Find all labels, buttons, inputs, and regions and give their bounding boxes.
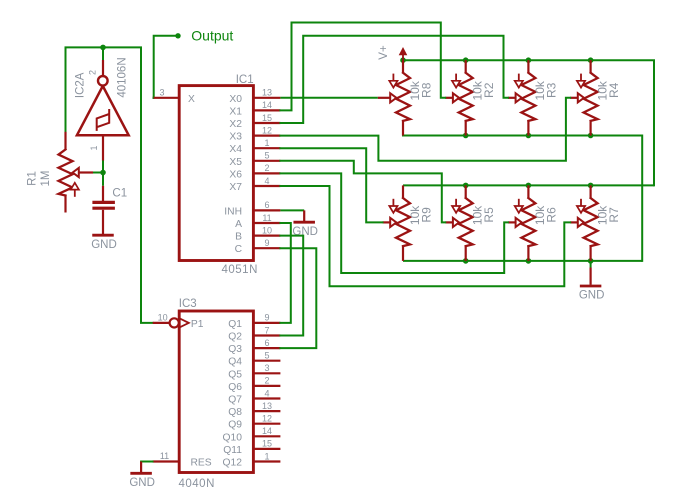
pin number 11: [262, 213, 271, 223]
pin number 2: [264, 163, 269, 173]
svg-text:Q4: Q4: [228, 357, 242, 368]
pin number 10: [262, 225, 272, 235]
svg-text:12: 12: [262, 414, 272, 424]
junction V+ rail x=528.4: [526, 57, 532, 63]
junction V+ rail x=403: [400, 57, 406, 63]
pin name Q5: [228, 369, 242, 380]
pin name Q1: [228, 319, 242, 330]
label 10k of R7: [595, 205, 609, 225]
ground at RES: [129, 462, 155, 489]
pin number 6: [264, 338, 269, 348]
pin number 9: [264, 313, 269, 323]
svg-text:P1: P1: [191, 319, 204, 330]
pin name Q8: [228, 407, 242, 418]
wiper lead of R3: [508, 97, 516, 99]
pin number 11: [160, 451, 169, 461]
pin number 15: [262, 113, 272, 123]
pin name X7: [229, 182, 242, 193]
junction top row bottom rail x=590.6: [588, 133, 594, 139]
svg-text:14: 14: [262, 426, 272, 436]
svg-text:IC1: IC1: [236, 74, 254, 86]
svg-text:Q6: Q6: [228, 382, 242, 393]
svg-text:13: 13: [262, 401, 272, 411]
resistor R1 trimmer 1M: [59, 132, 94, 213]
pin 10 stub of IC3 (P1 clock): [153, 318, 189, 327]
pin name X6: [229, 169, 242, 180]
pin 11 stub of IC3 (RES): [153, 460, 180, 462]
wiper lead of R5: [445, 221, 453, 223]
resistor R3 trimmer 10k: [515, 60, 536, 135]
svg-text:3: 3: [159, 88, 164, 98]
svg-text:11: 11: [160, 451, 169, 461]
junction V+ rail x=590.6: [588, 57, 594, 63]
pin 7 stub of IC3 (Q2): [253, 334, 280, 336]
svg-text:10: 10: [262, 225, 272, 235]
pin 13 stub of IC1 (X0): [253, 97, 280, 99]
pin name Q12: [223, 458, 243, 469]
pin number 3: [264, 363, 269, 373]
pin 2 stub of IC1 (X6): [253, 172, 280, 174]
pin number 5: [264, 351, 269, 361]
pin name X1: [229, 106, 242, 117]
pin 12 stub of IC3 (Q9): [253, 423, 280, 425]
svg-text:2: 2: [88, 70, 98, 75]
svg-text:13: 13: [262, 88, 272, 98]
label 10k of R5: [471, 205, 485, 225]
svg-text:X6: X6: [229, 169, 242, 180]
wire net C (IC1 pin 9 to IC3 Q3): [280, 248, 316, 348]
resistor R2 trimmer 10k: [452, 60, 473, 135]
svg-text:Q1: Q1: [228, 319, 242, 330]
pin number 12: [262, 414, 272, 424]
pin 4 stub of IC3 (Q7): [253, 397, 280, 399]
label Output: [191, 27, 233, 43]
resistor R5 trimmer 10k: [452, 185, 473, 261]
svg-text:Q3: Q3: [228, 344, 242, 355]
wire IC2A output to junction: [102, 47, 104, 60]
svg-text:15: 15: [262, 113, 272, 123]
wire R1 wiper to node: [93, 172, 103, 174]
wire Output to pin 3: [153, 97, 154, 99]
wire bottom row bottom rail: [403, 260, 642, 262]
svg-text:1: 1: [264, 451, 269, 461]
inverter IC2A pin 1 stub: [102, 135, 104, 160]
svg-text:R1: R1: [26, 171, 38, 186]
label 4040N: [179, 478, 215, 490]
svg-text:A: A: [235, 219, 242, 230]
svg-text:C: C: [235, 244, 243, 255]
IC U1 IC1 4051N analog multiplexer body: [179, 86, 253, 261]
label R1: [26, 171, 38, 186]
svg-text:Q11: Q11: [223, 445, 242, 456]
capacitor C1: [92, 186, 115, 234]
pin 6 stub of IC3 (Q3): [253, 347, 280, 349]
pin 5 stub of IC3 (Q4): [253, 360, 280, 362]
svg-text:1M: 1M: [40, 171, 52, 187]
pin number 1 of IC2A: [89, 145, 99, 150]
pin number 4: [264, 388, 269, 398]
label 10k of R2: [471, 80, 485, 100]
junction bottom row top rail x=465.7: [463, 183, 469, 189]
pin name Q11: [223, 445, 242, 456]
pin name Q3: [228, 344, 242, 355]
svg-text:IC2A: IC2A: [74, 72, 86, 98]
pin number 14: [262, 100, 272, 110]
pin name X2: [229, 119, 242, 130]
svg-text:X4: X4: [229, 144, 242, 155]
label 4051N: [222, 264, 258, 276]
wire net B (IC1 pin 10 to IC3 Q2): [280, 236, 303, 336]
pin number 4: [264, 176, 269, 186]
pin name Q4: [228, 357, 242, 368]
pin 15 stub of IC3 (Q11): [253, 448, 280, 450]
svg-text:R6: R6: [545, 207, 559, 223]
resistor R9 trimmer 10k: [389, 185, 410, 261]
label IC3: [179, 298, 197, 310]
pin 3 stub of IC1 (X common): [153, 97, 180, 99]
IC U3 IC3 4040N counter body: [179, 311, 253, 473]
svg-text:R2: R2: [482, 82, 496, 98]
power V+ symbol: [399, 47, 408, 60]
pin 4 stub of IC1 (X7): [253, 185, 280, 187]
pin name INH: [224, 206, 242, 217]
resistor R8 trimmer 10k: [389, 60, 410, 135]
svg-text:R7: R7: [607, 207, 621, 223]
svg-text:4051N: 4051N: [222, 264, 258, 276]
svg-text:2: 2: [264, 163, 269, 173]
svg-text:X7: X7: [229, 182, 242, 193]
wire Output net: [154, 36, 178, 98]
resistor R6 trimmer 10k: [515, 185, 536, 261]
svg-text:40106N: 40106N: [117, 57, 129, 97]
label 10k of R9: [408, 205, 422, 225]
pin name X5: [229, 157, 242, 168]
label R4: [607, 82, 621, 98]
ground at INH: [292, 210, 318, 237]
pin name Q6: [228, 382, 242, 393]
pin 14 stub of IC3 (Q10): [253, 435, 280, 437]
svg-text:10: 10: [158, 312, 168, 322]
pin number 13: [262, 88, 272, 98]
svg-text:R8: R8: [419, 82, 433, 98]
svg-text:6: 6: [264, 200, 269, 210]
junction bottom row bottom rail x=528.4: [526, 258, 532, 264]
svg-text:5: 5: [264, 151, 269, 161]
wire bottom row top rail: [403, 184, 654, 186]
label 10k of R6: [533, 205, 547, 225]
svg-text:R5: R5: [482, 207, 496, 223]
svg-text:7: 7: [264, 325, 269, 335]
junction R1 wiper / C1 / IC2A input: [100, 170, 106, 176]
wire net X5 to R5 wiper: [280, 161, 445, 223]
svg-text:Q9: Q9: [228, 420, 242, 431]
svg-text:V+: V+: [378, 45, 390, 60]
wiper lead of R9: [383, 221, 391, 223]
wire V+ rail (top row top): [403, 60, 654, 185]
svg-text:Output: Output: [191, 27, 233, 43]
label 10k of R3: [533, 80, 547, 100]
pin 14 stub of IC1 (X1): [253, 109, 280, 111]
svg-text:12: 12: [262, 125, 272, 135]
wiper lead of R4: [570, 97, 578, 99]
label X pin name: [188, 94, 195, 105]
svg-text:B: B: [235, 232, 242, 243]
wire top row bottom rail: [403, 136, 642, 261]
label R2: [482, 82, 496, 98]
wiper lead of R2: [445, 97, 453, 99]
wiper lead of R6: [508, 221, 516, 223]
label R3: [545, 82, 559, 98]
svg-text:15: 15: [262, 439, 272, 449]
svg-text:4040N: 4040N: [179, 478, 215, 490]
pin name Q2: [228, 332, 242, 343]
svg-text:Q8: Q8: [228, 407, 242, 418]
svg-text:R4: R4: [607, 82, 621, 98]
pin number 2 of IC2A: [88, 70, 98, 75]
svg-text:X3: X3: [229, 132, 242, 143]
pin 11 stub of IC1 (A): [253, 222, 280, 224]
svg-text:14: 14: [262, 100, 272, 110]
pin 9 stub of IC1 (C): [253, 247, 280, 249]
label 10k of R8: [408, 80, 422, 100]
wire INH to ground: [280, 209, 304, 211]
wire net X1 to R2 wiper: [280, 23, 445, 111]
pin name X0: [229, 94, 242, 105]
junction bottom row top rail x=528.4: [526, 183, 532, 189]
svg-text:X5: X5: [229, 157, 242, 168]
wiper lead of R7: [570, 221, 578, 223]
pin number 7: [264, 325, 269, 335]
wire RES to ground: [141, 461, 152, 463]
pin 15 stub of IC1 (X2): [253, 122, 280, 124]
pin 6 stub of IC1 (INH): [253, 209, 280, 211]
svg-text:9: 9: [264, 238, 269, 248]
inverter IC2A 40106N schmitt trigger: [77, 76, 129, 135]
pin 9 stub of IC3 (Q1): [253, 322, 280, 324]
pin number 10: [158, 312, 168, 322]
svg-text:Q5: Q5: [228, 369, 242, 380]
svg-text:1: 1: [89, 145, 99, 150]
svg-text:11: 11: [262, 213, 271, 223]
svg-text:Q7: Q7: [228, 395, 242, 406]
label 40106N: [117, 57, 129, 97]
svg-text:X: X: [188, 94, 195, 105]
svg-text:9: 9: [264, 313, 269, 323]
label C1: [112, 187, 127, 199]
pin number 2: [264, 376, 269, 386]
svg-text:C1: C1: [112, 187, 127, 199]
pin number 6: [264, 200, 269, 210]
pin 1 stub of IC3 (Q12): [253, 460, 280, 462]
junction osc output node: [100, 45, 106, 51]
svg-text:RES: RES: [191, 458, 212, 469]
svg-text:X2: X2: [229, 119, 242, 130]
pin name Q10: [223, 432, 243, 443]
junction top row bottom rail x=465.7: [463, 133, 469, 139]
label R8: [419, 82, 433, 98]
ground below C1: [91, 235, 117, 251]
pin number 1: [264, 138, 269, 148]
svg-text:IC3: IC3: [179, 298, 197, 310]
wire net X3 to R4 wiper: [280, 98, 570, 161]
junction V+ rail x=465.7: [463, 57, 469, 63]
wire net X4 to R9 wiper: [280, 148, 382, 222]
label 1M: [40, 171, 52, 187]
label R6: [545, 207, 559, 223]
pin name C: [235, 244, 243, 255]
wire net X2 to R3 wiper: [280, 36, 508, 123]
junction bottom row bottom rail x=465.7: [463, 258, 469, 264]
svg-text:GND: GND: [129, 477, 155, 489]
pin name Q7: [228, 395, 242, 406]
label R7: [607, 207, 621, 223]
pin number 15: [262, 439, 272, 449]
pin name X3: [229, 132, 242, 143]
pin name A: [235, 219, 242, 230]
wire bottom rail to ground: [590, 261, 592, 268]
svg-text:Q12: Q12: [223, 458, 243, 469]
label R9: [419, 207, 433, 223]
svg-text:X1: X1: [229, 106, 242, 117]
svg-text:2: 2: [264, 376, 269, 386]
pin number 1: [264, 451, 269, 461]
pin number 3: [159, 88, 164, 98]
pin number 9: [264, 238, 269, 248]
pin 12 stub of IC1 (X3): [253, 135, 280, 137]
svg-text:3: 3: [264, 363, 269, 373]
wiper lead of R8: [378, 97, 391, 99]
pin number 12: [262, 125, 272, 135]
junction top row bottom rail x=528.4: [526, 133, 532, 139]
pin name X4: [229, 144, 242, 155]
ground at pot rails: [579, 268, 605, 302]
svg-text:R9: R9: [419, 207, 433, 223]
svg-text:R3: R3: [545, 82, 559, 98]
wire net X6 to R6 wiper: [280, 173, 508, 273]
svg-text:4: 4: [264, 388, 269, 398]
inverter IC2A pin 2 stub: [102, 60, 104, 76]
wire osc top net (IC2A output to R1 top and IC3 clock): [66, 47, 153, 323]
svg-text:X0: X0: [229, 94, 242, 105]
pin 2 stub of IC3 (Q6): [253, 385, 280, 387]
pin name P1: [191, 319, 204, 330]
wire net A (IC1 pin 11 to IC3 Q1): [280, 223, 290, 323]
pin 10 stub of IC1 (B): [253, 235, 280, 237]
pin number 13: [262, 401, 272, 411]
pin name B: [235, 232, 242, 243]
wire net X7 to R7 wiper: [280, 186, 570, 286]
resistor R7 trimmer 10k: [577, 185, 598, 261]
svg-text:6: 6: [264, 338, 269, 348]
svg-text:Q10: Q10: [223, 432, 243, 443]
svg-text:4: 4: [264, 176, 269, 186]
pin 5 stub of IC1 (X5): [253, 160, 280, 162]
svg-text:Q2: Q2: [228, 332, 242, 343]
label V+: [378, 45, 390, 60]
svg-text:1: 1: [264, 138, 269, 148]
label IC1: [236, 74, 254, 86]
junction bottom row bottom rail x=590.6: [588, 258, 594, 264]
resistor R4 trimmer 10k: [577, 60, 598, 135]
pin name Q9: [228, 420, 242, 431]
wire IC2A input node: [102, 161, 104, 186]
pin number 14: [262, 426, 272, 436]
label IC2A: [74, 72, 86, 98]
pin 3 stub of IC3 (Q5): [253, 372, 280, 374]
svg-text:GND: GND: [91, 239, 117, 251]
wire net X0 to R8 wiper: [280, 97, 377, 99]
pin number 5: [264, 151, 269, 161]
label 10k of R4: [595, 80, 609, 100]
pin 1 stub of IC1 (X4): [253, 147, 280, 149]
pin name RES: [191, 458, 212, 469]
label R5: [482, 207, 496, 223]
svg-text:5: 5: [264, 351, 269, 361]
junction bottom row top rail x=590.6: [588, 183, 594, 189]
node Output endpoint: [175, 33, 180, 38]
svg-text:GND: GND: [579, 290, 605, 302]
svg-text:INH: INH: [224, 206, 242, 217]
pin 13 stub of IC3 (Q8): [253, 410, 280, 412]
